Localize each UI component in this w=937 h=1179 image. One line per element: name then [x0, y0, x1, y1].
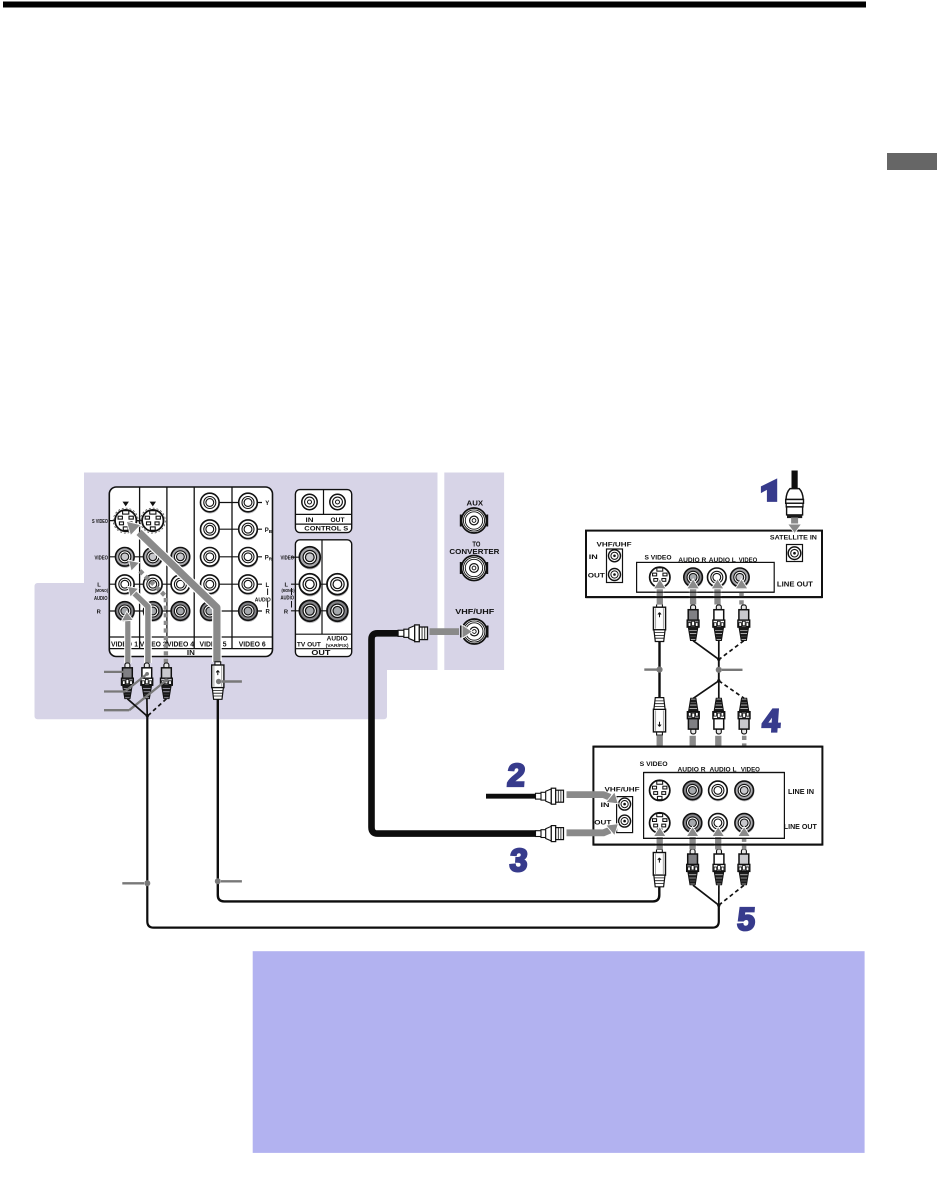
svg-text:OUT: OUT: [331, 518, 345, 524]
svg-text:Y: Y: [265, 501, 269, 507]
svg-text:VIDEO: VIDEO: [281, 556, 295, 562]
svg-text:AUDIO R: AUDIO R: [678, 557, 706, 564]
svg-text:OUT: OUT: [588, 573, 605, 580]
svg-text:S VIDEO: S VIDEO: [92, 519, 108, 525]
svg-text:VIDEO 6: VIDEO 6: [239, 641, 266, 648]
svg-text:(MONO): (MONO): [282, 588, 295, 593]
svg-text:VIDEO: VIDEO: [739, 557, 758, 564]
svg-text:S VIDEO: S VIDEO: [645, 555, 672, 562]
svg-text:AUDIO: AUDIO: [94, 596, 108, 602]
svg-text:2: 2: [506, 757, 526, 793]
svg-text:IN: IN: [306, 518, 314, 524]
svg-text:PR: PR: [265, 555, 273, 561]
svg-text:IN: IN: [589, 554, 599, 561]
svg-text:L: L: [266, 583, 270, 589]
svg-text:VIDEO 4: VIDEO 4: [167, 641, 194, 648]
svg-text:PB: PB: [265, 528, 272, 534]
svg-text:CONTROL S: CONTROL S: [304, 527, 348, 533]
svg-text:AUX: AUX: [467, 498, 484, 507]
svg-text:AUDIO L: AUDIO L: [709, 557, 736, 564]
svg-text:IN: IN: [187, 650, 195, 657]
svg-text:(MONO): (MONO): [95, 588, 108, 593]
svg-text:LINE OUT: LINE OUT: [777, 581, 814, 588]
svg-text:LINE OUT: LINE OUT: [784, 824, 818, 831]
svg-text:VIDEO 3: VIDEO 3: [140, 641, 167, 648]
svg-text:LINE IN: LINE IN: [788, 789, 814, 796]
svg-text:S VIDEO: S VIDEO: [640, 761, 668, 768]
svg-text:OUT: OUT: [311, 648, 330, 657]
svg-text:4: 4: [761, 702, 781, 738]
svg-text:VHF/UHF: VHF/UHF: [605, 786, 640, 793]
svg-text:3: 3: [509, 842, 529, 878]
svg-text:R: R: [266, 609, 271, 615]
svg-text:AUDIO: AUDIO: [327, 637, 348, 643]
svg-text:5: 5: [736, 901, 756, 937]
svg-text:VHF/UHF: VHF/UHF: [597, 541, 632, 548]
svg-text:AUDIO: AUDIO: [281, 596, 295, 602]
svg-text:VHF/UHF: VHF/UHF: [455, 607, 495, 616]
svg-text:VIDEO: VIDEO: [95, 555, 109, 561]
svg-text:SATELLITE IN: SATELLITE IN: [770, 535, 817, 542]
svg-text:AUDIO: AUDIO: [255, 598, 271, 604]
